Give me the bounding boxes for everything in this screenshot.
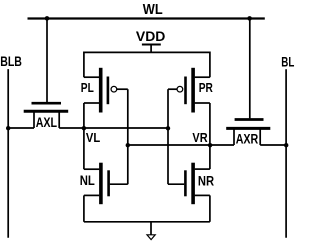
svg-text:AXR: AXR — [236, 131, 259, 146]
wire ground stub — [150, 222, 152, 235]
transistor NL (NMOS) — [84, 163, 128, 205]
svg-text:NR: NR — [198, 173, 214, 188]
svg-text:VR: VR — [192, 130, 208, 145]
transistor PR (PMOS) — [177, 68, 210, 113]
transistor PL (PMOS) — [84, 68, 117, 113]
node VR rail — [128, 144, 234, 146]
svg-text:VDD: VDD — [136, 28, 166, 44]
svg-text:AXL: AXL — [36, 114, 58, 130]
transistor AXR (access NMOS) — [226, 120, 270, 146]
svg-text:VL: VL — [86, 130, 100, 145]
svg-text:PL: PL — [81, 80, 94, 95]
svg-text:WL: WL — [143, 2, 163, 18]
junction dot VL to right gates — [166, 126, 170, 130]
wire BL bit line — [285, 69, 287, 238]
junction dot VL — [82, 126, 86, 130]
wire left rail to ground — [83, 195, 85, 221]
wire AXL gate stub — [46, 19, 48, 103]
junction dot WL-AXR gate — [247, 16, 252, 21]
junction dot VR to left gates — [126, 143, 130, 147]
wire BLB bit line — [7, 69, 9, 238]
wire right cross coupling — [167, 89, 169, 184]
ground symbol — [147, 235, 155, 240]
wire ground rail — [84, 221, 210, 223]
svg-text:NL: NL — [80, 173, 95, 188]
power VDD terminal bar — [142, 44, 161, 46]
node VL rail — [84, 127, 168, 129]
svg-text:BLB: BLB — [0, 53, 22, 69]
junction dot VR — [208, 143, 212, 147]
junction dot BLB-AXL — [6, 126, 10, 130]
transistor NR (NMOS) — [168, 163, 210, 205]
wire PL gate to cross node — [117, 88, 128, 90]
svg-text:BL: BL — [281, 54, 294, 70]
wire VDD stub — [150, 45, 152, 53]
wire right inverter rail — [209, 103, 211, 169]
wire left inverter rail — [83, 103, 85, 169]
junction dot AXR-BL — [284, 143, 288, 147]
wire PR gate to cross node — [168, 88, 177, 90]
wire AXL to VL — [59, 127, 84, 129]
wire AXR gate stub — [249, 19, 251, 119]
transistor AXL (access NMOS) — [24, 103, 68, 128]
svg-text:PR: PR — [199, 80, 214, 95]
wire left cross coupling — [127, 89, 129, 184]
wire WL word line — [28, 17, 265, 19]
wire right rail to ground — [209, 195, 211, 221]
junction dot WL-AXL gate — [45, 16, 50, 21]
wire VDD rail — [84, 52, 210, 77]
wire AXR to BL — [260, 144, 286, 146]
wire BLB to AXL — [8, 127, 34, 129]
